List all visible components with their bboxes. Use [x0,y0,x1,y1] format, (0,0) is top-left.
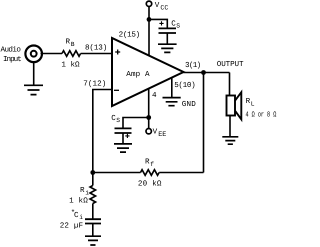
wire Ri to Ci [92,204,94,220]
svg-text:V: V [153,128,158,136]
wire VEE node to CS bottom [123,118,149,129]
node output junction [201,70,206,75]
ground (GND pin) [163,98,181,106]
speaker RL [227,96,236,116]
svg-text:20 kΩ: 20 kΩ [138,179,162,188]
svg-text:i: i [85,189,89,196]
wire inverting input [93,90,111,173]
svg-text:GND: GND [182,100,196,109]
pin 5(10) wire [171,78,173,98]
wire output [184,72,230,74]
svg-text:4 Ω or 8 Ω: 4 Ω or 8 Ω [246,111,277,120]
wire feedback left segment [93,172,141,174]
svg-text:CC: CC [160,4,168,11]
wire VCC to op-amp pin 2 [148,7,150,57]
VEE terminal [146,129,151,134]
svg-text:Audio: Audio [1,45,22,54]
svg-text:S: S [116,117,120,124]
svg-text:B: B [71,41,75,48]
svg-text:L: L [251,101,255,108]
ground (CS bottom) [114,144,132,152]
wire RB to op-amp noninverting input [81,53,111,55]
wire CS to ground [166,33,168,44]
ground (input connector) [24,85,43,94]
ground (CS top) [158,44,177,52]
resistor Rf [141,170,160,176]
resistor RB [62,51,81,57]
wire speaker to ground [229,116,231,137]
capacitor CS (VCC bypass) [159,28,177,33]
ground (Ci) [85,236,101,245]
wire feedback vertical [203,73,205,173]
svg-text:5(10): 5(10) [174,81,196,90]
node VEE bypass tap [146,115,151,120]
ground (speaker) [222,137,238,144]
wire junction to Ri [92,173,94,186]
pin 4 wire [148,89,150,129]
svg-text:2(15): 2(15) [119,30,141,39]
svg-text:1 kΩ: 1 kΩ [69,197,88,206]
wire output to speaker [229,73,231,96]
wire connector to ground [33,63,35,86]
op-amp U1 Amp A [112,38,184,106]
svg-text:4: 4 [152,92,157,100]
capacitor CS (VEE bypass) [115,128,132,133]
VCC terminal [146,1,151,6]
capacitor Ci [85,219,101,223]
wire feedback right segment [159,172,203,174]
svg-text:7(12): 7(12) [83,79,106,88]
svg-text:3(1): 3(1) [185,61,201,70]
svg-text:22 µF: 22 µF [60,222,84,231]
svg-text:EE: EE [158,131,166,139]
wire CS bottom to ground [122,133,124,144]
svg-text:i: i [79,214,83,221]
svg-text:S: S [176,23,180,30]
wire input to RB [41,53,63,55]
node inverting feedback junction [90,170,95,175]
resistor Ri [90,186,96,204]
svg-text:8(13): 8(13) [85,44,107,53]
svg-text:Amp A: Amp A [126,71,150,79]
svg-text:1 kΩ: 1 kΩ [61,61,80,70]
audio input connector J1 [25,46,42,63]
svg-text:V: V [155,2,160,10]
node VCC bypass tap [147,17,152,22]
svg-text:f: f [150,161,154,168]
svg-text:OUTPUT: OUTPUT [217,60,244,69]
svg-text:Input: Input [3,55,22,64]
wire VCC node to CS [149,19,167,28]
wire Ci to ground [92,224,94,237]
